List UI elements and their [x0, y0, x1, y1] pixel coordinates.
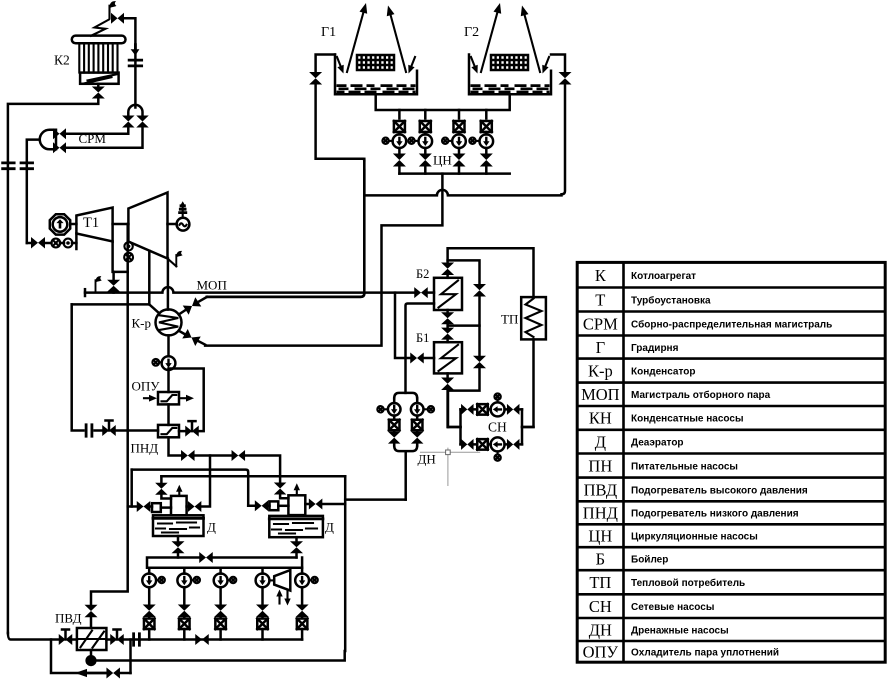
cooling tower Г2 vapor arrows: [481, 13, 497, 72]
feed pump PN 2: [177, 574, 191, 588]
wire: tower G2 supply pipe: [551, 55, 565, 195]
wire: left riser to SRM top line: [66, 128, 128, 134]
valve on recirculation: [106, 668, 120, 679]
valve on turbine inlet: [31, 237, 45, 249]
svg-text:Сборно-распределительная магис: Сборно-распределительная магистраль: [631, 318, 832, 330]
svg-text:Циркуляционные насосы: Циркуляционные насосы: [631, 532, 758, 543]
valve on G1 supply: [309, 72, 322, 85]
wire: inlet line from SRM header to HP: [27, 242, 77, 245]
DN pump 2: [416, 399, 419, 403]
wire: drain return line to deaerator riser: [97, 651, 345, 661]
flange pair on left header 2: [21, 163, 33, 169]
flange pair on PND inlet: [86, 425, 92, 437]
cooling tower Г2 inlet arrows: [471, 57, 475, 66]
svg-text:ТП: ТП: [589, 573, 611, 592]
legend row ТП: [589, 573, 745, 592]
svg-text:К-р: К-р: [132, 316, 152, 331]
wire: drop from feed line to recirculation: [129, 640, 132, 674]
svg-text:Т1: Т1: [83, 215, 99, 231]
wire: tower G1 supply pipe: [316, 55, 363, 159]
CN branch at x=425.3: [424, 110, 427, 119]
gland steam flow arrows at OPU: [144, 397, 149, 399]
svg-text:Турбоустановка: Турбоустановка: [631, 294, 711, 306]
svg-text:ДН: ДН: [589, 620, 612, 639]
svg-text:ТП: ТП: [501, 312, 518, 327]
deaerator 2 column: [288, 495, 305, 515]
valve on H1 left: [181, 450, 195, 461]
cooling tower Г2 eliminator grid: [491, 55, 528, 70]
wire: H2 left drop to deaerator-1 inlet: [130, 470, 133, 507]
instrument circle-x on extraction: [124, 253, 133, 262]
condensate drop from B2/B1 drains area to DN: [406, 304, 435, 393]
wire: CW inlet line from CN pumps: [205, 174, 442, 346]
wire: H3 drop to deaerator-1 vent valve: [160, 476, 163, 482]
legend row КН: [589, 409, 744, 428]
legend row МОП: [581, 385, 771, 404]
legend row Д: [595, 432, 684, 451]
lightning lead into boiler K2: [91, 20, 109, 36]
wire: B2 bypass branch: [448, 260, 480, 283]
valve on PND outlet right: [185, 426, 199, 437]
discharge valve column of pump at x=262.5: [261, 587, 264, 604]
wire: extraction header (line A) with bridge over condenser neck: [85, 287, 415, 292]
wire: drain header between deaerators: [295, 553, 298, 557]
wire: PND bypass loop right: [169, 369, 204, 432]
cooling tower Г1 basin: [335, 55, 417, 95]
heater PND: [158, 425, 179, 437]
wire: stop valve to HP inlet: [71, 223, 77, 226]
wire: crossover pipe HP-LP: [113, 223, 129, 226]
cooling tower Г1 vapor arrows: [347, 13, 363, 72]
wire: feed water line PVD: [8, 633, 302, 640]
valve right of PVD: [110, 634, 124, 645]
exhaust arrows of PN4 drive turbine: [278, 594, 280, 604]
network pumps SN loop: [461, 409, 523, 444]
legend row ПНД: [583, 504, 799, 523]
svg-text:Д: Д: [595, 432, 606, 451]
wire: LP extraction tap down: [148, 251, 151, 305]
flow arrow on recirculation: [75, 669, 87, 677]
svg-text:ОПУ: ОПУ: [583, 642, 619, 661]
deaerator 2 vent arrow: [296, 487, 298, 494]
discharge valve column of pump at x=302.1: [301, 587, 304, 604]
wire: SN loop left connection: [447, 391, 450, 427]
svg-text:Г1: Г1: [321, 25, 336, 40]
wire: omega split into SRM riser valves: [128, 105, 142, 116]
valve SRM riser right: [136, 116, 149, 128]
wire: SRM to turbine inlet header: [27, 140, 40, 243]
condenser K-r: [156, 309, 182, 335]
discharge valve column of pump at x=149.2: [148, 587, 151, 604]
feed pump PN 1: [142, 574, 156, 588]
svg-text:Б: Б: [596, 550, 605, 569]
wire: header H3: [161, 475, 345, 478]
legend row ОПУ: [583, 642, 779, 661]
legend row К-р: [588, 361, 695, 380]
svg-text:ЦН: ЦН: [588, 527, 612, 546]
discharge valve column of pump at x=184.3: [183, 587, 186, 604]
deaerator 2 tank: [269, 516, 323, 537]
svg-text:Конденсатные насосы: Конденсатные насосы: [631, 414, 744, 425]
wire: deaerator-2 side riser: [344, 476, 347, 651]
cooling tower Г2 basin: [469, 55, 551, 95]
SN bottom branch: [461, 443, 523, 446]
valve SRM riser left: [122, 116, 135, 128]
svg-text:ПН: ПН: [588, 456, 612, 475]
instrument (circle-dot) on turbine inlet: [64, 239, 73, 248]
flange pair on left header 1: [3, 163, 15, 169]
wall tick at header start: [84, 289, 87, 296]
wire: HP left edge extension: [75, 234, 78, 250]
valve on feed line mid: [195, 634, 209, 645]
turbine T1 HP cylinder: [76, 208, 112, 242]
collector SRM (capsule): [40, 130, 56, 150]
wire: DN discharge manifold: [394, 446, 417, 500]
pennant on LP exhaust: [168, 259, 177, 267]
instrument (crossed circle) on turbine inlet: [51, 239, 60, 248]
heat consumer TP: [521, 297, 546, 339]
svg-text:СРМ: СРМ: [79, 131, 107, 146]
control valve to extraction header: [112, 272, 115, 279]
valve on drain header: [199, 552, 213, 563]
svg-text:ОПУ: ОПУ: [132, 379, 161, 394]
svg-text:Охладитель пара уплотнений: Охладитель пара уплотнений: [631, 647, 779, 658]
flow arrow on steam downcomer: [131, 43, 140, 55]
wire: feed pump suction manifold: [147, 558, 302, 568]
legend row ДН: [589, 620, 729, 639]
svg-text:ПНД: ПНД: [131, 441, 159, 456]
svg-text:К2: К2: [54, 53, 70, 68]
wire: H1 drop at x=210: [209, 456, 212, 477]
CN branch at x=459.0: [458, 110, 461, 119]
turbine T1 LP cylinder: [128, 193, 167, 259]
legend row ПВД: [584, 480, 808, 499]
legend row Б: [596, 550, 669, 569]
DN pump 1: [393, 399, 396, 403]
valve with stem on PND inlet: [102, 425, 116, 436]
legend row СРМ: [583, 314, 832, 333]
cooling tower Г1 inlet arrows: [337, 57, 341, 66]
valve SRM outlet top: [53, 128, 66, 139]
legend row СН: [589, 597, 715, 616]
svg-text:СН: СН: [488, 420, 507, 435]
boiler B2 (heat exchanger): [434, 278, 462, 310]
deaerator 1 drain valve: [177, 536, 180, 541]
pennant above boiler K2: [110, 1, 117, 18]
PVD drain with black dot: [90, 650, 93, 661]
CW inlet diagonal valve at condenser bottom right: [182, 329, 200, 346]
deaerator 1 vent valve: [155, 483, 168, 495]
wire: CW return riser and header: [362, 159, 561, 289]
wire: H1 drop to deaerator 2 vent: [279, 476, 282, 482]
wire: B2 to B1 with two valves: [446, 310, 449, 312]
wire: deaerator 1 right inlet from H1 drop: [187, 476, 210, 506]
valve deaerator 2 right inlet: [309, 499, 323, 510]
wire: CW outlet line to towers riser: [207, 160, 364, 297]
deaerator 1 vent arrow: [178, 489, 180, 496]
wire: right riser to SRM bottom line: [66, 128, 143, 148]
wire: feed pump suction drops: [149, 568, 302, 574]
square fitting deaerator 2 inlet: [270, 501, 279, 510]
valve on bypass upper: [473, 284, 486, 297]
svg-text:Дренажные насосы: Дренажные насосы: [631, 625, 729, 636]
feed pump PN 3: [214, 574, 228, 588]
flange pair right of PVD: [134, 634, 140, 646]
svg-text:Г2: Г2: [464, 25, 479, 40]
discharge valve column of pump at x=220.6: [219, 587, 222, 604]
svg-text:ЦН: ЦН: [433, 153, 452, 168]
svg-text:СН: СН: [589, 597, 612, 616]
svg-text:Градирня: Градирня: [631, 343, 679, 354]
feed pump PN 4 (turbine driven): [256, 574, 270, 588]
legend row К: [595, 266, 696, 285]
wire: steam line from K2 valve to downcomer: [124, 18, 135, 107]
valve feed line left of PVD: [59, 634, 73, 645]
svg-text:К: К: [595, 266, 607, 285]
svg-text:Деаэратор: Деаэратор: [631, 437, 684, 448]
legend row Т: [595, 290, 711, 309]
valve below B1: [446, 373, 449, 377]
wire: LP exhaust to condenser: [167, 259, 170, 310]
wire: DN suction manifold: [394, 393, 417, 399]
svg-text:Подогреватель высокого давлени: Подогреватель высокого давления: [631, 485, 808, 496]
valve above B2: [446, 275, 449, 278]
pennant on extraction header left: [96, 276, 102, 291]
svg-text:КН: КН: [589, 409, 612, 428]
svg-text:Подогреватель низкого давления: Подогреватель низкого давления: [631, 509, 799, 520]
wire: PVD shell steam inlet from extraction: [85, 605, 98, 618]
CW outlet diagonal valve at condenser top right: [183, 297, 202, 314]
valve on boiler K2 steam outlet: [111, 13, 124, 24]
valve on boiler K2 blowdown: [92, 87, 105, 99]
wire: deaerator 2 left inlet from H2: [248, 505, 269, 508]
wire: PND inlet line from line B drop: [72, 304, 158, 430]
legend row ПН: [588, 456, 737, 475]
svg-text:Г: Г: [596, 338, 606, 357]
CN branch at x=399.4: [398, 110, 401, 119]
svg-text:Сетевые насосы: Сетевые насосы: [631, 602, 714, 613]
excitation symbol above generator: [182, 204, 184, 218]
CN branch at x=486.3: [485, 110, 488, 119]
condensate pump KN below condenser: [167, 335, 170, 356]
wire: header H1: [195, 456, 281, 477]
deaerator 1 column: [171, 496, 187, 515]
square fitting deaerator 1 inlet: [152, 503, 161, 512]
wire: deaerator 1 left inlet: [128, 505, 152, 508]
svg-text:МОП: МОП: [581, 385, 620, 404]
svg-text:Б2: Б2: [416, 267, 429, 281]
svg-text:К-р: К-р: [588, 361, 613, 380]
legend table: [577, 262, 885, 662]
svg-text:МОП: МОП: [197, 278, 227, 293]
flange pair on steam downcomer: [129, 60, 142, 66]
svg-text:Т: Т: [595, 290, 605, 309]
wire: PVD recirculation loop: [51, 640, 131, 674]
valve SRM outlet bottom: [53, 142, 66, 153]
svg-text:Б1: Б1: [416, 331, 429, 345]
svg-text:Конденсатор: Конденсатор: [631, 366, 695, 377]
svg-text:Котлоагрегат: Котлоагрегат: [631, 271, 696, 282]
svg-text:Питательные насосы: Питательные насосы: [631, 461, 738, 472]
valve deaerator 1 right inlet: [188, 501, 202, 512]
cooler OPU: [158, 392, 179, 404]
svg-text:Магистраль отборного пара: Магистраль отборного пара: [631, 389, 771, 401]
svg-text:Д: Д: [207, 520, 216, 535]
svg-text:Тепловой потребитель: Тепловой потребитель: [631, 577, 745, 589]
deaerator 1 tank: [153, 515, 204, 536]
drive turbine of PN 4: [274, 570, 290, 591]
valve on bypass lower: [473, 356, 486, 369]
svg-text:ПНД: ПНД: [583, 504, 618, 523]
valve deaerator 2 inlet: [255, 500, 269, 511]
feed pump PN 5: [295, 574, 309, 588]
deaerator 2 drain valve: [295, 537, 298, 541]
wire: tower basin outlet manifold: [376, 94, 510, 110]
wire: long extraction drop to PVD: [91, 293, 128, 605]
instrument circle-dot on extraction: [124, 242, 132, 250]
wire: PND condensate outlet to header H1: [169, 437, 182, 455]
wire: CW outlet parallel run under MOP: [207, 293, 365, 297]
svg-text:ДН: ДН: [418, 452, 436, 467]
wire: OPU to PND: [167, 404, 170, 425]
svg-text:Д: Д: [325, 520, 334, 535]
boiler B1 (heat exchanger): [434, 342, 462, 373]
legend row Г: [596, 338, 679, 357]
valve B1 inlet: [410, 353, 424, 364]
legend row ЦН: [588, 527, 757, 546]
generator G: [168, 223, 177, 226]
wire: DN to deaerator riser: [345, 498, 406, 501]
wire: MOP branch down to B1 inlet: [395, 293, 434, 358]
wire: condensate to OPU cooler: [167, 370, 170, 392]
svg-text:Бойлер: Бойлер: [631, 555, 668, 566]
valve deaerator 1 inlet: [137, 501, 151, 512]
SN top branch: [461, 408, 523, 411]
extraction line with instruments from crossover: [126, 224, 129, 293]
deaerator 2 vent valve: [274, 483, 287, 495]
valve on H1 right: [232, 450, 246, 461]
main steam stop valve (octagon gauge): [50, 214, 70, 234]
svg-text:ПВД: ПВД: [584, 480, 618, 499]
wire: header H2: [132, 470, 249, 506]
wire: deaerator 2 right inlet: [305, 503, 345, 506]
svg-text:ПВД: ПВД: [55, 611, 82, 626]
valve on G2 supply: [559, 72, 572, 85]
cooling tower Г1 eliminator grid: [357, 55, 394, 70]
wire: CN discharge manifold: [399, 172, 509, 175]
boiler K2: [72, 36, 126, 84]
heater PVD: [77, 628, 107, 650]
wire: line B turbine gland steam header: [72, 304, 160, 313]
valve B2 inlet: [414, 287, 428, 298]
wire: HP exhaust down: [113, 242, 128, 272]
construction node (open square): [420, 448, 480, 486]
wire: TP return down to SN loop: [522, 339, 534, 427]
svg-text:СРМ: СРМ: [583, 314, 618, 333]
